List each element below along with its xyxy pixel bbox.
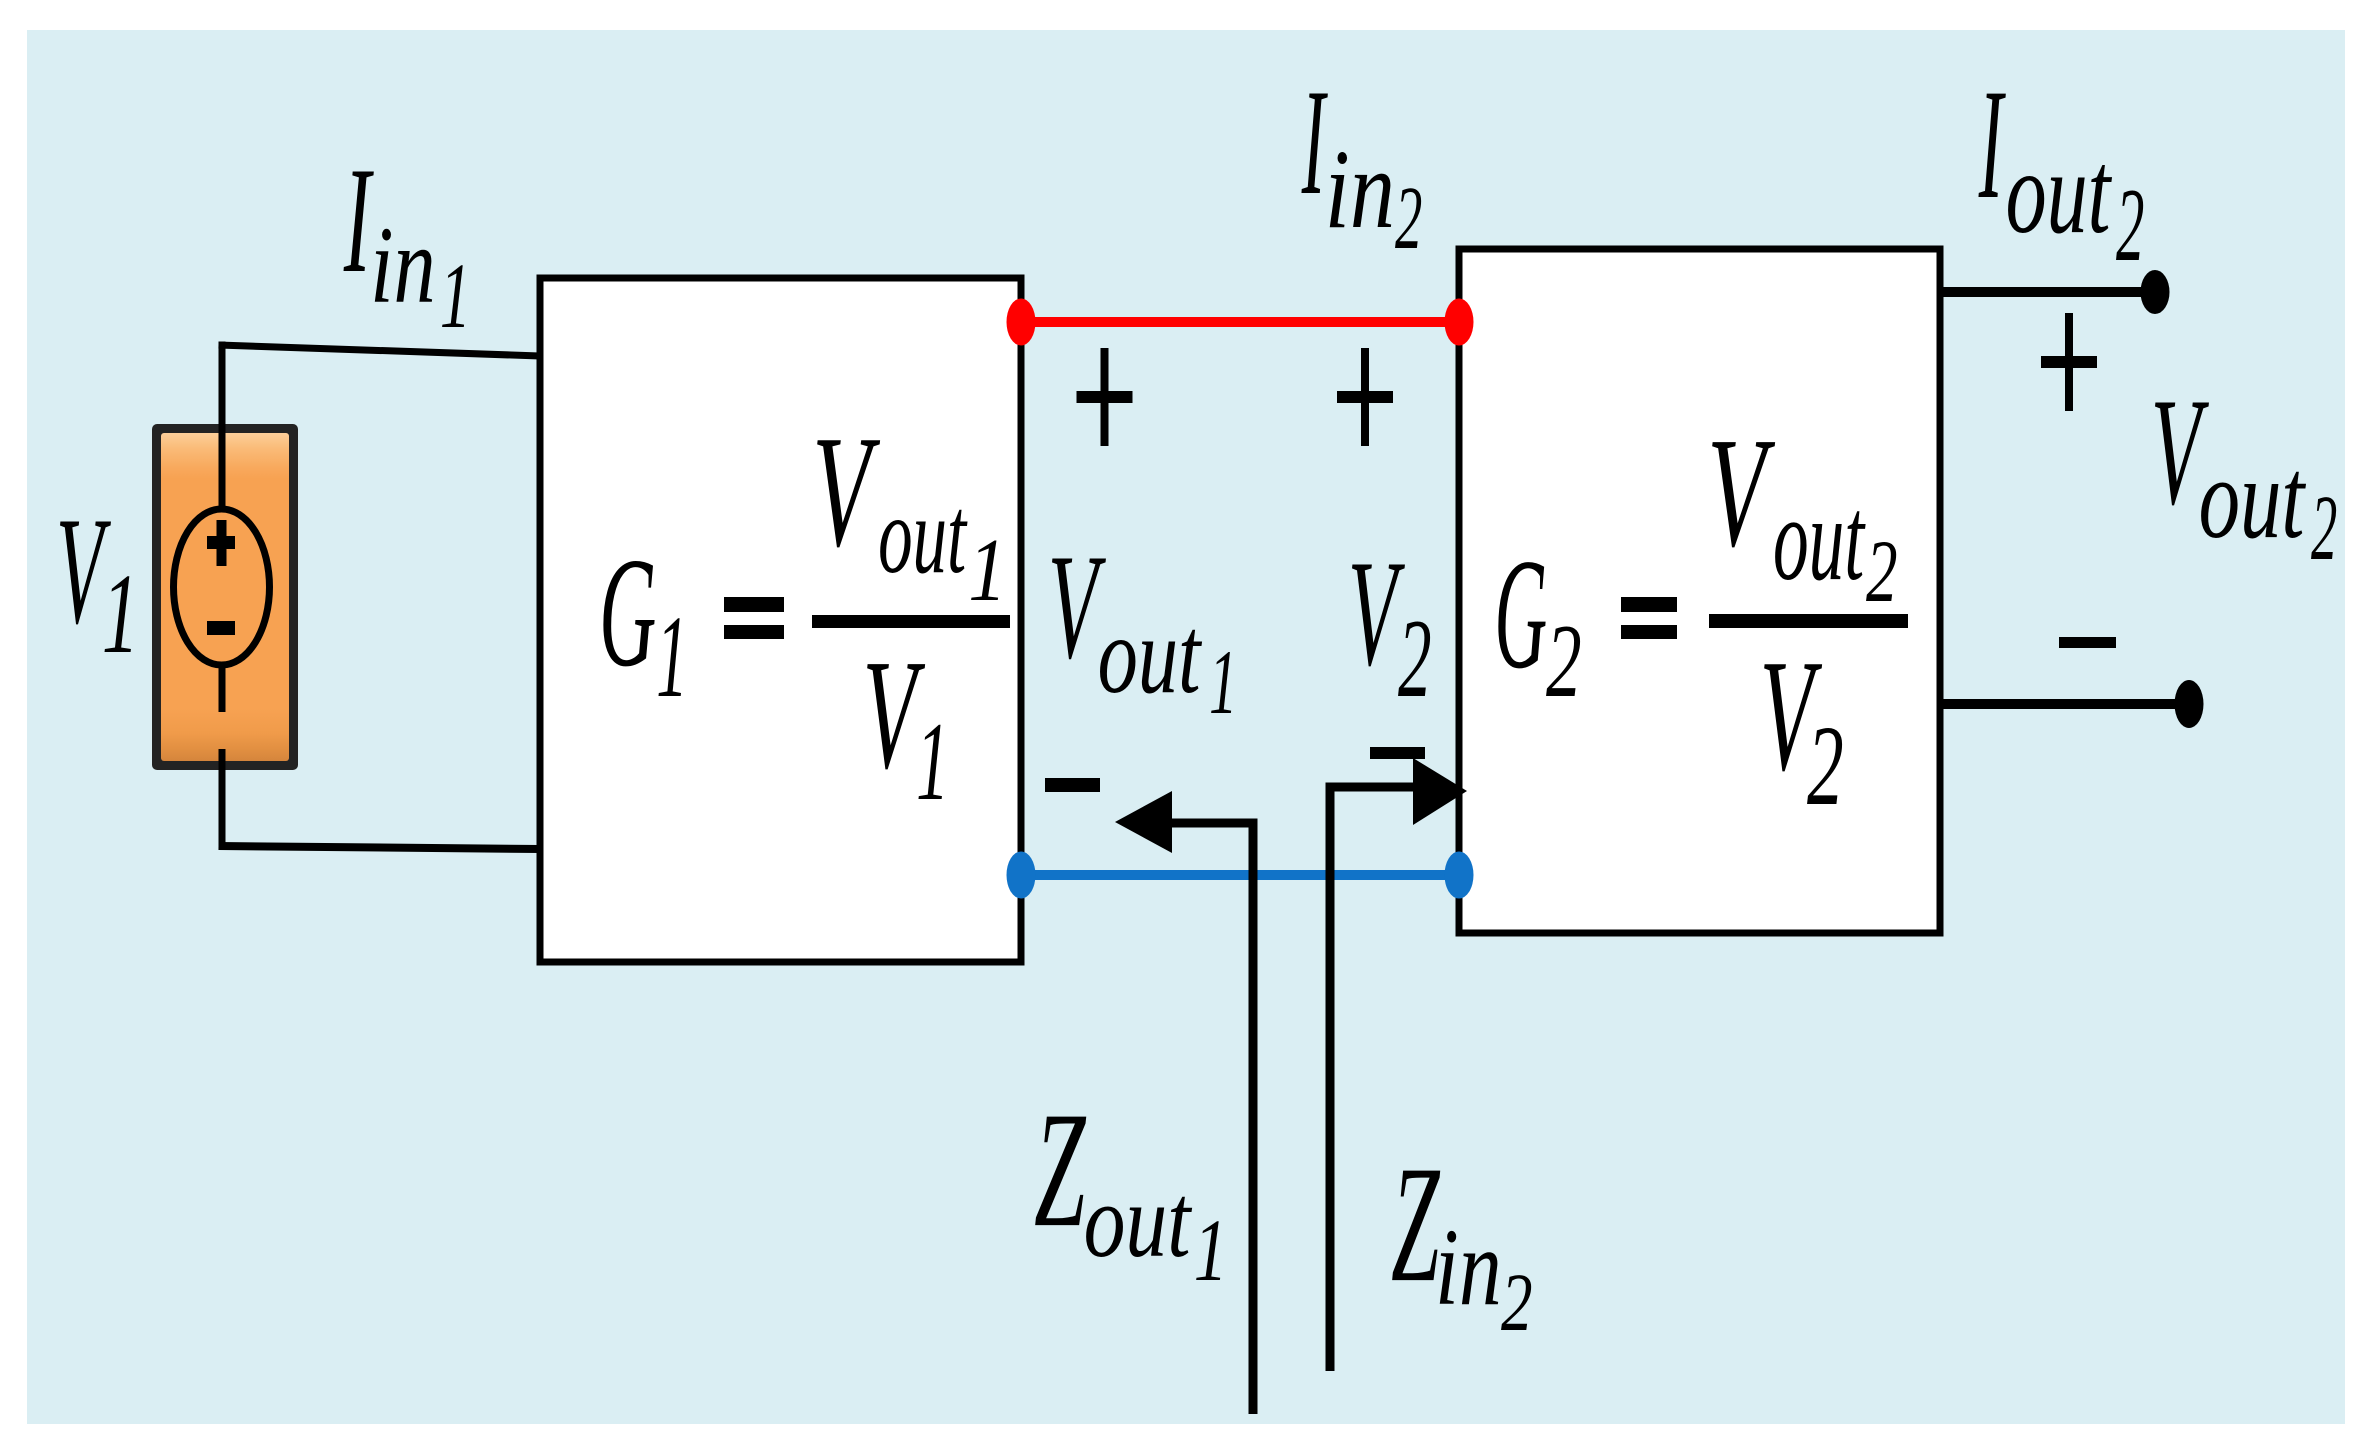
svg-text:2: 2 [1866,521,1898,620]
svg-text:V: V [1707,406,1776,580]
svg-text:in: in [1435,1207,1502,1329]
svg-text:out: out [2199,434,2307,563]
svg-text:in: in [370,204,435,327]
svg-text:Z: Z [1034,1078,1086,1262]
svg-text:V: V [1348,530,1406,697]
svg-text:2: 2 [2311,476,2337,580]
svg-text:I: I [1978,56,2006,232]
svg-text:1: 1 [916,699,949,823]
svg-text:out: out [2006,127,2113,259]
svg-text:G: G [1494,526,1547,702]
svg-text:1: 1 [968,521,1006,621]
svg-text:2: 2 [1398,596,1432,720]
svg-text:1: 1 [656,593,688,723]
svg-text:out: out [1084,1162,1193,1279]
svg-text:out: out [878,474,968,596]
svg-text:2: 2 [2116,168,2144,284]
svg-text:in: in [1325,127,1395,252]
svg-text:2: 2 [1546,604,1582,720]
svg-text:out: out [1098,594,1203,716]
svg-text:1: 1 [440,244,471,348]
svg-text:V: V [812,402,880,580]
svg-text:G: G [599,525,656,699]
svg-text:2: 2 [1501,1256,1533,1348]
svg-text:1: 1 [102,550,139,677]
svg-text:1: 1 [1209,632,1237,733]
svg-text:2: 2 [1807,701,1844,829]
svg-text:2: 2 [1395,168,1422,268]
svg-text:Z: Z [1391,1131,1441,1317]
svg-text:1: 1 [1194,1202,1228,1300]
svg-text:out: out [1773,473,1866,606]
